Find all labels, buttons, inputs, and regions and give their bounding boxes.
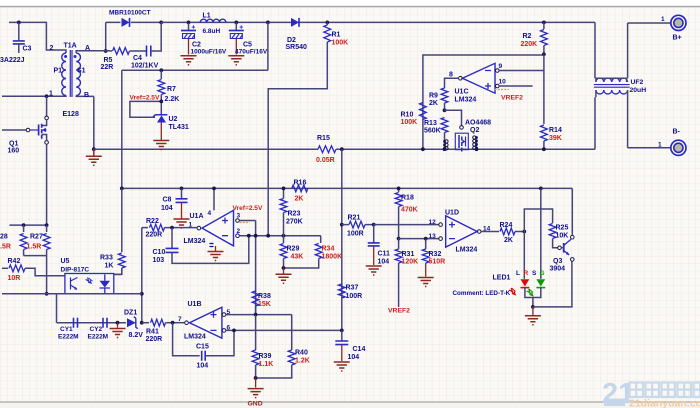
junction CY ground tap — [116, 321, 120, 325]
Q2 right pins — [476, 138, 478, 150]
svg-text:2K: 2K — [295, 196, 304, 203]
svg-text:S: S — [532, 270, 537, 277]
svg-text:4: 4 — [208, 210, 212, 217]
connector pad B- pin 1 — [628, 147, 671, 149]
pin 1 of U1A output — [197, 226, 201, 230]
U5 phototransistor — [71, 278, 78, 290]
resistor R27 1.5R — [46, 225, 48, 232]
svg-text:TL431: TL431 — [169, 124, 189, 131]
junction mid rail left — [120, 187, 124, 191]
svg-text:E128: E128 — [63, 111, 79, 118]
junction R23 bottom — [282, 234, 286, 238]
svg-text:LM324: LM324 — [184, 238, 206, 245]
capacitor C11 104 — [373, 225, 375, 243]
junction opto collector to DZ1 leg — [140, 292, 144, 296]
svg-text:DZ1: DZ1 — [124, 310, 137, 317]
resistor R9 2K — [441, 88, 448, 103]
svg-text:1000uF/16V: 1000uF/16V — [191, 49, 227, 56]
node junction at C3 top — [17, 21, 21, 25]
wire pin13 net — [399, 238, 439, 240]
svg-text:LM324: LM324 — [456, 247, 478, 254]
resistor R28 0.5R — [23, 225, 25, 232]
wire main ground-side rail — [94, 97, 595, 149]
svg-text:U2: U2 — [169, 116, 178, 123]
svg-text:100K: 100K — [401, 119, 418, 126]
svg-text:R39: R39 — [259, 353, 272, 360]
svg-text:R23: R23 — [288, 211, 301, 218]
resistor R33 1K — [118, 253, 125, 268]
svg-text:R2: R2 — [523, 33, 532, 40]
junction Q1 source leg at opto rail — [45, 292, 49, 296]
svg-text:LM324: LM324 — [184, 334, 206, 341]
wire transformer pin B down to ground rail — [93, 96, 95, 149]
capacitor C2 1000uF/16V electrolytic — [188, 22, 190, 30]
junction R23 top on mid rail — [282, 187, 286, 191]
svg-text:R15: R15 — [317, 135, 330, 142]
svg-text:2: 2 — [50, 45, 54, 52]
junction R10 bottom — [421, 147, 425, 151]
svg-text:R25: R25 — [556, 225, 569, 232]
svg-text:R41: R41 — [146, 329, 159, 336]
resistor R21 100R — [340, 223, 344, 227]
svg-text:Vref=2.5V: Vref=2.5V — [233, 205, 263, 212]
svg-text:120K: 120K — [402, 259, 419, 266]
svg-text:C2: C2 — [192, 42, 201, 49]
svg-text:1800K: 1800K — [322, 254, 343, 261]
svg-text:VREF2: VREF2 — [388, 308, 410, 315]
svg-text:28: 28 — [0, 234, 8, 241]
svg-text:0.05R: 0.05R — [316, 157, 335, 164]
pin 2 of U1A — [236, 234, 240, 238]
wire LED supply bracket — [524, 209, 552, 232]
resistor R40 1.2K — [288, 350, 295, 365]
svg-text:R40: R40 — [295, 350, 308, 357]
resistor R23 270K — [283, 188, 285, 198]
svg-text:LM324: LM324 — [455, 97, 477, 104]
svg-text:1.2K: 1.2K — [295, 358, 310, 365]
wire R22 left leg down to DZ1 node — [141, 228, 143, 323]
svg-text:DIP-817C: DIP-817C — [61, 267, 90, 274]
capacitor C14 104 — [341, 330, 343, 341]
svg-text:B: B — [84, 92, 89, 99]
resistor R15 0.05R — [318, 146, 336, 153]
wire transformer pin1 to left rail — [2, 95, 62, 97]
svg-text:R34: R34 — [322, 246, 335, 253]
wire node A to snubber — [80, 50, 110, 52]
junction R7 top on Vout feed — [159, 68, 163, 72]
junction C11 tap — [372, 223, 376, 227]
capacitor CY1 E222M — [74, 318, 78, 328]
junction pin2 crossing R38 leg — [254, 234, 258, 238]
pin 13 of U1D — [439, 237, 443, 241]
junction R14 bottom on rail — [542, 147, 546, 151]
diode DZ1 zener 8.2V — [127, 318, 136, 327]
Q2 left pins — [444, 138, 446, 149]
pin 6 of U1B — [222, 329, 226, 333]
svg-text:C5: C5 — [243, 42, 252, 49]
svg-text:R24: R24 — [500, 222, 513, 229]
junction at ground rail — [92, 147, 96, 151]
junction DZ1 cathode — [140, 321, 144, 325]
svg-text:270K: 270K — [286, 219, 303, 226]
pin 5 of U1B — [222, 313, 226, 317]
junction green LED feed — [539, 187, 543, 191]
svg-text:10K: 10K — [556, 233, 569, 240]
svg-text:R29: R29 — [287, 246, 300, 253]
svg-text:8: 8 — [449, 72, 453, 79]
svg-text:R21: R21 — [348, 215, 361, 222]
ground at U1A pin 11 — [208, 252, 224, 261]
svg-text:T1A: T1A — [64, 43, 77, 50]
capacitor CY2 E222M — [103, 318, 107, 328]
junction Q2 source on rail — [443, 147, 447, 151]
svg-text:10R: 10R — [8, 275, 21, 282]
svg-text:15K: 15K — [258, 301, 271, 308]
ground at CY caps — [117, 323, 119, 328]
ground under LED1 — [532, 307, 534, 316]
svg-text:R13: R13 — [424, 120, 437, 127]
resistor R41 220R — [142, 322, 149, 324]
junction R27 top on Q1 source leg — [45, 223, 49, 227]
wire R21 node to U1D pin12 — [374, 224, 439, 226]
junction LED ground node — [531, 305, 535, 309]
svg-text:39K: 39K — [549, 135, 562, 142]
svg-text:R1: R1 — [332, 32, 341, 39]
LED1 red glow arrows — [509, 288, 515, 295]
svg-text:Comment: LED-T-K: Comment: LED-T-K — [453, 290, 511, 297]
svg-text:R: R — [524, 270, 529, 277]
svg-text:1.1K: 1.1K — [259, 361, 274, 368]
svg-text:R22: R22 — [146, 218, 159, 225]
svg-text:6.8uH: 6.8uH — [203, 28, 221, 35]
svg-text:U1B: U1B — [188, 301, 202, 308]
svg-text:C15: C15 — [196, 344, 209, 351]
junction R2 top — [542, 21, 546, 25]
pin 9 of U1C — [496, 69, 500, 73]
pin 12 of U1D — [439, 223, 443, 227]
pin 11 of U1A ground — [215, 246, 217, 252]
ground under R29 — [283, 268, 285, 274]
svg-text:470K: 470K — [401, 207, 418, 214]
svg-text:U1D: U1D — [445, 210, 459, 217]
svg-text:L: L — [516, 270, 520, 277]
svg-text:104: 104 — [161, 205, 173, 212]
svg-text:C10: C10 — [153, 249, 166, 256]
svg-text:104: 104 — [197, 363, 209, 370]
U5 LED arrows — [86, 277, 93, 283]
svg-text:220K: 220K — [521, 41, 538, 48]
wire opto emitter rail — [2, 293, 142, 295]
resistor R16 2K — [292, 185, 308, 192]
wire battery sense column — [341, 149, 343, 330]
svg-text:R14: R14 — [549, 127, 562, 134]
svg-text:100K: 100K — [332, 40, 349, 47]
U5 LED diode — [100, 281, 111, 288]
wire top output rail — [161, 21, 595, 23]
svg-text:2: 2 — [237, 228, 241, 235]
resistor R39 1.1K — [255, 315, 257, 350]
resistor R10 100K — [420, 103, 427, 120]
junction C14 tap at pin6 net — [340, 329, 344, 333]
svg-text:R18: R18 — [401, 195, 414, 202]
svg-text:D2: D2 — [287, 37, 296, 44]
capacitor C5 470uF/16V electrolytic — [235, 22, 237, 30]
ground GND under R39 — [255, 378, 257, 388]
svg-text:UF2: UF2 — [631, 79, 644, 86]
capacitor C8 104 — [181, 188, 183, 198]
junction C15 at pin6 — [232, 329, 236, 333]
pin 7 of U1B output — [185, 321, 189, 325]
svg-text:43K: 43K — [291, 254, 304, 261]
svg-text:8.2V: 8.2V — [129, 332, 144, 339]
svg-text:13: 13 — [429, 233, 437, 240]
svg-text:2.2K: 2.2K — [165, 96, 180, 103]
svg-text:20uH: 20uH — [630, 87, 647, 94]
wire top-left input rail — [9, 22, 62, 50]
svg-text:22R: 22R — [101, 64, 114, 71]
junction R18 bottom at pin13 net — [397, 237, 401, 241]
svg-text:.5R: .5R — [0, 244, 11, 251]
resistor R38 15K — [252, 291, 259, 306]
LED1 red lamp — [521, 279, 530, 286]
pin 8 of U1C — [459, 76, 463, 80]
junction R32 top — [424, 237, 428, 241]
svg-text:7: 7 — [178, 316, 182, 323]
resistor R24 2K — [481, 231, 499, 233]
svg-text:1K: 1K — [105, 263, 114, 270]
junction C10 feedback at pin2 — [247, 234, 251, 238]
wire Vout drop to opto feed rail — [122, 22, 268, 188]
svg-text:B+: B+ — [673, 35, 682, 42]
ground under C2 — [181, 56, 197, 65]
wire opto LED cathode to DZ1 leg — [114, 273, 122, 275]
ground under C11 — [366, 266, 382, 275]
wire red LED anode — [523, 232, 525, 279]
transformer T1A core — [70, 50, 72, 97]
svg-text:R31: R31 — [402, 251, 415, 258]
svg-text:U1A: U1A — [190, 213, 204, 220]
svg-text:MBR10100CT: MBR10100CT — [109, 10, 151, 17]
junction C8 tap — [180, 187, 184, 191]
svg-text:Q2: Q2 — [470, 127, 479, 134]
resistor R7 2.2K — [160, 70, 162, 79]
transformer polarity dots — [64, 55, 67, 58]
ground under R32 — [418, 278, 434, 287]
transformer T1A secondary S1 — [76, 53, 80, 96]
svg-text:Q3: Q3 — [553, 258, 562, 265]
resistor R29 43K — [283, 236, 285, 243]
wire Q1 drain — [46, 96, 48, 116]
junction R18 top on mid rail — [397, 187, 401, 191]
svg-text:3A222J: 3A222J — [0, 57, 25, 64]
svg-text:100R: 100R — [346, 293, 363, 300]
svg-text:R38: R38 — [258, 293, 271, 300]
svg-text:R10: R10 — [401, 112, 414, 119]
junction Vref divider tap — [266, 234, 270, 238]
ground under C14 — [334, 362, 350, 371]
svg-text:C8: C8 — [163, 197, 172, 204]
resistor R42 10R — [2, 267, 8, 269]
svg-text:3904: 3904 — [550, 266, 566, 273]
svg-text:104: 104 — [348, 354, 360, 361]
ground under C8 — [174, 219, 190, 228]
junction R9/R13 node — [443, 108, 447, 112]
junction at pin1 / Q1 drain — [45, 94, 49, 98]
wire x122 down to R33 — [121, 188, 123, 252]
wire pin5 to R40 leg — [291, 315, 293, 350]
svg-text:SR540: SR540 — [286, 44, 308, 51]
svg-text:C11: C11 — [378, 251, 391, 258]
capacitor C15 104 — [173, 323, 200, 356]
svg-text:1.5R: 1.5R — [27, 244, 42, 251]
svg-text:10: 10 — [499, 79, 507, 86]
wire R27/R28 bottoms join — [24, 256, 47, 294]
wire pin3 to R38 leg — [255, 221, 257, 314]
wire U1C feedback top — [423, 55, 544, 149]
pin 3 of U1A — [236, 219, 240, 223]
diode U2 TL431 — [157, 115, 166, 122]
LED1 green glow arrows — [526, 289, 533, 296]
inductor UF2 20uH common-mode choke — [595, 22, 628, 78]
junction C5 tap — [234, 21, 238, 25]
wire TL431 ref loop — [130, 101, 161, 117]
svg-text:100R: 100R — [347, 231, 364, 238]
junction R41 to pin7/C15 — [171, 321, 175, 325]
svg-text:S1: S1 — [77, 68, 86, 75]
svg-text:VREF2: VREF2 — [501, 95, 523, 102]
ground under TL431 — [160, 123, 162, 141]
svg-text:CY2: CY2 — [90, 326, 103, 333]
svg-text:2K: 2K — [429, 100, 438, 107]
junction R15 right / battery sense — [340, 147, 344, 151]
junction R2 bottom / U1C top — [542, 52, 546, 56]
junction R38 bottom at pin5 — [254, 313, 258, 317]
pin 4 of U1A power — [213, 188, 215, 210]
resistor R14 39K — [541, 125, 548, 141]
svg-text:220R: 220R — [146, 232, 163, 239]
junction R29/R34 bottom — [282, 266, 286, 270]
watermark chinese characters — [630, 383, 644, 398]
resistor R25 10K — [549, 224, 556, 239]
svg-text:2K: 2K — [504, 237, 513, 244]
svg-text:R37: R37 — [346, 285, 359, 292]
transformer T1A primary P1 — [62, 53, 66, 96]
capacitor C10 103 — [170, 226, 174, 230]
svg-text:R5: R5 — [104, 57, 113, 64]
junction R39/R40 bottom — [254, 376, 258, 380]
svg-text:R27: R27 — [30, 234, 43, 241]
resistor R31 120K — [398, 239, 400, 249]
junction diode anode at node A — [104, 49, 108, 53]
resistor R5 22R — [110, 50, 112, 52]
svg-text:104: 104 — [378, 259, 390, 266]
capacitor C4 102/1KV — [147, 46, 151, 57]
wire R33 bottom into opto — [121, 268, 123, 274]
svg-text:C14: C14 — [353, 346, 366, 353]
junction R24 output node — [522, 230, 526, 234]
resistor R22 220R — [142, 227, 148, 229]
wire LED node to Q3 emitter — [533, 261, 572, 307]
resistor R32 510R — [425, 239, 427, 249]
wire gate feed to Q2 — [445, 110, 462, 125]
op-amp U1B LM324 — [190, 307, 222, 338]
svg-text:E222M: E222M — [88, 334, 109, 341]
junction diode cathode at top rail — [159, 21, 163, 25]
wire LED cathodes join — [525, 288, 541, 307]
svg-text:R32: R32 — [429, 251, 442, 258]
junction C2 tap — [187, 21, 191, 25]
svg-text:LED1: LED1 — [493, 275, 511, 282]
wire feedback mid rail — [122, 188, 573, 234]
op-amp U1A LM324 — [202, 210, 234, 246]
svg-text:Q1: Q1 — [9, 141, 18, 148]
svg-text:Vref=2.5V: Vref=2.5V — [130, 95, 160, 102]
svg-text:1: 1 — [661, 16, 665, 23]
svg-text:103: 103 — [153, 257, 165, 264]
svg-text:GND: GND — [248, 401, 263, 408]
no-ERC marker at U1A pin3 — [240, 222, 250, 224]
resistor R1 100K — [326, 22, 328, 25]
svg-text:L1: L1 — [203, 13, 211, 20]
svg-text:C3: C3 — [23, 46, 32, 53]
LED1 green lamp — [536, 279, 545, 286]
svg-text:C4: C4 — [133, 55, 142, 62]
wire CY1 up to opto emitter rail — [56, 294, 58, 323]
pin 14 of U1D output — [477, 230, 481, 234]
svg-text:3: 3 — [237, 213, 241, 220]
transistor Q1 MOSFET — [45, 116, 49, 120]
svg-text:510R: 510R — [429, 259, 446, 266]
svg-text:R42: R42 — [8, 258, 21, 265]
ground at transformer return — [93, 149, 95, 156]
junction Vout sense tap — [266, 21, 270, 25]
svg-text:R16: R16 — [294, 180, 307, 187]
op-amp U1D LM324 — [446, 216, 477, 247]
wire green LED anode — [540, 188, 542, 279]
svg-text:R33: R33 — [100, 255, 113, 262]
svg-text:1: 1 — [658, 142, 662, 149]
svg-text:470uF/16V: 470uF/16V — [235, 49, 268, 56]
resistor R34 1800K — [320, 236, 322, 243]
svg-text:560K: 560K — [424, 128, 441, 135]
wire Q1 source down — [46, 144, 48, 225]
connector pad B+ pin 1 — [628, 22, 671, 24]
op-amp U1C LM324 — [462, 63, 495, 93]
wire R2 node down to R14 — [543, 54, 545, 124]
svg-text:P1: P1 — [54, 68, 63, 75]
svg-text:160: 160 — [8, 148, 20, 155]
svg-text:G: G — [540, 270, 545, 277]
svg-text:B-: B- — [673, 129, 681, 136]
svg-text:AO4468: AO4468 — [465, 120, 491, 127]
resistor R13 560K — [441, 118, 448, 133]
resistor R37 100R — [338, 284, 345, 298]
resistor R2 220K — [543, 22, 545, 29]
resistor R18 470K — [398, 188, 400, 192]
wire R27/R28 top rail — [9, 224, 46, 226]
svg-text:U1C: U1C — [455, 89, 469, 96]
svg-text:220R: 220R — [146, 336, 163, 343]
svg-text:12: 12 — [429, 219, 437, 226]
svg-text:9: 9 — [499, 63, 503, 70]
pin 10 of U1C — [496, 84, 500, 88]
no-ERC marker at VREF2 — [495, 89, 510, 91]
svg-text:R9: R9 — [429, 93, 438, 100]
ground under C5 — [228, 56, 244, 65]
junction R1 top — [325, 21, 329, 25]
svg-text:102/1KV: 102/1KV — [131, 63, 159, 70]
svg-text:R7: R7 — [167, 86, 176, 93]
